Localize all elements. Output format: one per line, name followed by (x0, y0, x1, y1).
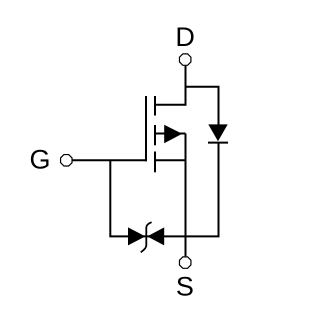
wire body tap horizontal (155, 133, 186, 135)
svg-text:G: G (29, 144, 50, 174)
zener Z1 center bar with bent ends (141, 222, 152, 252)
terminal octagon S (179, 257, 190, 268)
diode D1 cathode bar (208, 142, 228, 144)
terminal octagon D (179, 54, 190, 65)
transistor Q1 channel bottom dash (source) (154, 152, 156, 173)
zener Z1 left triangle (points right) (128, 227, 145, 245)
wire branch from drain to body diode (186, 87, 219, 126)
wire from diode cathode down, bottom wire to left, up to gate branch (110, 143, 218, 237)
svg-text:D: D (175, 22, 195, 52)
wire source tap horizontal (155, 159, 186, 161)
wire gate horizontal from G terminal to gate (73, 159, 148, 161)
wire source vertical down to S terminal (185, 134, 187, 257)
wire drain vertical from D terminal down to channel tap (155, 66, 186, 105)
zener Z1 right triangle (points left) (147, 227, 164, 245)
svg-text:S: S (176, 272, 194, 302)
transistor Q1 channel top dash (drain) (154, 96, 156, 116)
transistor Q1 channel middle dash (body) (154, 125, 156, 145)
transistor Q1 body arrow (points right) (164, 125, 182, 143)
terminal octagon G (61, 155, 72, 166)
transistor Q1 gate line (145, 96, 147, 161)
diode D1 body diode triangle (cathode down) (208, 124, 227, 141)
